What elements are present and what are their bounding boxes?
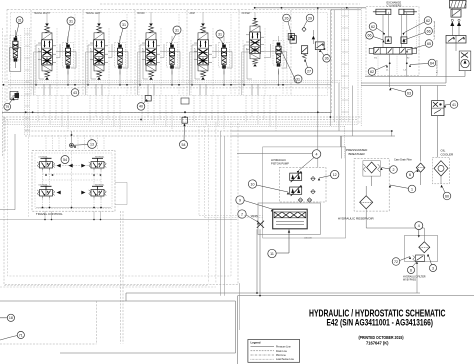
- servo inner box: [273, 209, 308, 229]
- svg-text:31: 31: [122, 23, 126, 27]
- ladder into reservoir: [341, 136, 343, 159]
- section drop wires: [37, 95, 39, 122]
- balloon 41: [450, 101, 458, 109]
- svg-text:79: 79: [6, 105, 10, 109]
- balloon 62: [368, 68, 376, 76]
- svg-text:HYDRAULIC: HYDRAULIC: [271, 158, 286, 162]
- svg-text:BOOM: BOOM: [138, 13, 145, 15]
- spool valve BOOM: [142, 24, 160, 80]
- balloon 1: [408, 185, 416, 193]
- svg-text:9: 9: [239, 198, 241, 202]
- balloon 66: [366, 32, 374, 40]
- balloon 31: [216, 30, 224, 38]
- balloon 43: [71, 89, 79, 97]
- piston pump 1: [290, 171, 303, 182]
- spool valve OFFSET: [246, 18, 264, 66]
- filter symbol: [419, 242, 430, 253]
- travel box center dashed line: [71, 151, 73, 212]
- pilot bus bundle dashed: [3, 116, 361, 118]
- svg-text:TRAVEL CONTROL: TRAVEL CONTROL: [36, 212, 63, 216]
- port relief valve ARM: [222, 45, 226, 48]
- work port wires BOOM: [147, 84, 149, 95]
- component 54b: [182, 117, 188, 123]
- feed wire TRAVEL LEFT: [87, 45, 89, 85]
- svg-text:41: 41: [452, 103, 456, 107]
- travel box interior wires: [42, 171, 44, 186]
- svg-text:COOLER: COOLER: [441, 153, 455, 157]
- svg-text:13: 13: [90, 142, 94, 146]
- svg-text:To Aux Solenoid: To Aux Solenoid: [436, 60, 439, 76]
- bottom dashed bus: [0, 343, 97, 345]
- spool valve TRAVEL RIGHT: [38, 24, 56, 80]
- leader to relief ARM: [219, 38, 223, 43]
- svg-text:54: 54: [63, 158, 67, 162]
- bottom frame line: [0, 300, 236, 302]
- pilot drop pair: [120, 211, 122, 344]
- valve section OFFSET: [242, 12, 288, 95]
- valve bank top dashed line: [100, 3, 360, 5]
- svg-text:31: 31: [175, 28, 179, 32]
- flow arrows travel: [57, 164, 61, 168]
- servo outer box: [258, 203, 320, 235]
- engine symbol: [449, 1, 466, 9]
- solenoid valve 70: [10, 92, 19, 100]
- spool top stub BOOM: [150, 12, 152, 24]
- long horizontal mid line: [0, 219, 237, 221]
- feed wire OFFSET: [243, 45, 245, 85]
- bottom return line 1: [126, 292, 420, 294]
- svg-text:BREATHER: BREATHER: [349, 152, 366, 156]
- balloon 3: [429, 264, 436, 271]
- left return wire: [14, 134, 16, 210]
- exchange valve: [369, 48, 417, 55]
- balloon 79: [4, 103, 11, 110]
- pump dashed box: [279, 167, 326, 202]
- svg-text:L2A L2B: L2A L2B: [304, 236, 312, 239]
- inlet section components: [290, 21, 325, 58]
- svg-text:66: 66: [427, 29, 431, 33]
- svg-text:43: 43: [73, 91, 77, 95]
- svg-text:62: 62: [371, 25, 375, 29]
- svg-text:62: 62: [426, 19, 430, 23]
- balloon 31: [173, 26, 181, 34]
- leader 6b: [413, 262, 418, 267]
- leader 3: [428, 254, 432, 265]
- exchange check left: [385, 37, 391, 44]
- svg-text:36: 36: [325, 57, 329, 61]
- balloon 66: [425, 27, 433, 35]
- svg-text:54: 54: [182, 143, 186, 147]
- pump compartment box: [263, 147, 346, 238]
- cooler core symbol: [434, 161, 448, 184]
- svg-text:PISTON PUMP: PISTON PUMP: [271, 162, 289, 166]
- reservoir dashed box: [354, 159, 389, 212]
- valve section BOOM: [138, 12, 184, 95]
- leader to relief TRAVEL LEFT: [119, 29, 123, 44]
- balloon 72: [392, 258, 400, 266]
- leader 72: [400, 257, 410, 261]
- svg-text:26: 26: [285, 16, 289, 20]
- feed wire BOOM: [139, 45, 141, 85]
- wire 71: [0, 336, 17, 341]
- bottom return line 2: [238, 295, 474, 297]
- work port wires ARM: [199, 84, 201, 95]
- check valve inlet: [312, 36, 315, 40]
- balloon 54: [61, 156, 69, 164]
- svg-text:3: 3: [432, 266, 434, 270]
- supply lines down from inlet: [317, 8, 319, 167]
- piston pump 2: [290, 185, 303, 196]
- svg-text:40: 40: [139, 105, 143, 109]
- legend drain line: [251, 350, 275, 352]
- svg-text:27: 27: [307, 69, 311, 73]
- balloon 26: [283, 14, 291, 22]
- leader left relief: [16, 24, 19, 37]
- right solenoid valve: [446, 36, 466, 44]
- section separator line 3: [134, 10, 136, 95]
- bypass valve box: [416, 255, 425, 262]
- shuttle valve 13: [70, 143, 74, 147]
- svg-text:4: 4: [316, 152, 318, 156]
- unloader valve box: [315, 42, 324, 50]
- balloon 29 leader + orifice: [304, 21, 307, 27]
- balloon 31: [67, 17, 75, 25]
- work port wires OFFSET: [251, 84, 253, 95]
- section separator line 6: [290, 10, 292, 95]
- travel box outlet drops: [44, 211, 46, 219]
- balloon 64: [428, 59, 436, 67]
- suction strainer: [360, 186, 373, 209]
- svg-text:Pilot Line: Pilot Line: [276, 354, 287, 357]
- balloon 54: [180, 141, 188, 149]
- reservoir to filter wire: [365, 209, 367, 228]
- port relief valve TRAVEL LEFT: [118, 45, 122, 48]
- leader 26: [288, 22, 291, 33]
- balloon 13: [88, 140, 97, 149]
- spool top stub TRAVEL RIGHT: [46, 12, 48, 24]
- valve section TRAVEL LEFT: [86, 12, 132, 95]
- work port wires TRAVEL LEFT: [95, 84, 97, 95]
- balloon 2: [390, 166, 398, 174]
- section wire loops: [194, 49, 200, 80]
- section internal dashed lines: [190, 40, 192, 95]
- engine coupling X: [257, 221, 264, 228]
- balloon 31: [16, 17, 23, 24]
- balloon 11: [268, 249, 276, 257]
- cylinder drop lines: [382, 15, 384, 48]
- legend load sense line: [251, 358, 275, 360]
- svg-text:31: 31: [218, 32, 222, 36]
- svg-text:29: 29: [308, 16, 312, 20]
- svg-text:18: 18: [9, 316, 13, 320]
- balloon 31: [120, 21, 128, 29]
- leader 4b: [418, 230, 420, 235]
- balloon 65: [425, 40, 433, 48]
- svg-text:64: 64: [430, 61, 434, 65]
- svg-text:HYDRAULIC RESERVOIR: HYDRAULIC RESERVOIR: [338, 217, 375, 221]
- coupler box: [451, 9, 461, 17]
- svg-text:31: 31: [69, 19, 73, 23]
- valve bank outer dashed boundary: [7, 10, 332, 113]
- svg-text:60: 60: [445, 194, 449, 198]
- pilot dashed rect inner: [8, 120, 232, 277]
- pedal valve LH forward: [37, 156, 55, 171]
- leader 9: [244, 201, 272, 210]
- leader 63: [391, 88, 406, 92]
- svg-text:W/ BYPASS: W/ BYPASS: [403, 279, 416, 282]
- section separator line 2: [82, 10, 84, 95]
- balloon 7: [238, 210, 246, 218]
- work port wires TRAVEL RIGHT: [43, 84, 45, 95]
- svg-text:66: 66: [368, 34, 372, 38]
- pilot dashed rect outer: [4, 117, 238, 285]
- balloon 71: [17, 331, 24, 338]
- filter wires: [423, 228, 425, 242]
- exchange cylinder left: [373, 9, 391, 14]
- leader 1: [390, 185, 408, 188]
- svg-text:7167647 (K): 7167647 (K): [366, 341, 389, 346]
- dashed mid horizontals bottom: [4, 284, 208, 286]
- leader 10: [257, 185, 288, 192]
- svg-text:To 12 Volt Solenoid: To 12 Volt Solenoid: [433, 20, 436, 40]
- junction cluster 54b: [181, 98, 189, 104]
- travel control box: [32, 151, 115, 212]
- section separator line 1: [30, 10, 32, 95]
- leader 27: [305, 59, 308, 67]
- exchange cylinder right: [399, 9, 417, 14]
- left edge pilot verticals: [2, 112, 4, 157]
- svg-text:1: 1: [411, 187, 413, 191]
- breather symbol: [363, 161, 381, 176]
- section separator line 4: [186, 10, 188, 95]
- balloon 60: [443, 192, 451, 200]
- svg-text:72: 72: [394, 260, 398, 264]
- ladder rungs right: [342, 16, 349, 112]
- svg-text:Pressure Line: Pressure Line: [276, 346, 291, 349]
- pedal valve RH reverse: [89, 183, 107, 198]
- balloon 10: [248, 180, 256, 188]
- spool top stub ARM: [202, 12, 204, 24]
- left inlet check: [290, 36, 296, 44]
- solenoid valve 41: [432, 101, 444, 116]
- svg-text:6: 6: [410, 268, 412, 272]
- svg-text:65: 65: [427, 42, 431, 46]
- svg-text:62: 62: [370, 70, 374, 74]
- leader 12: [319, 176, 331, 179]
- svg-text:Load Sense Line: Load Sense Line: [276, 358, 295, 361]
- svg-text:CYLINDERS: CYLINDERS: [387, 4, 402, 8]
- feed wire ARM: [191, 45, 193, 85]
- travel pilot dashed link: [54, 165, 90, 167]
- section wire loops: [90, 49, 96, 80]
- spool top stub OFFSET: [254, 12, 256, 24]
- legend box: [248, 340, 300, 363]
- exchange inner dotted verticals: [419, 15, 421, 48]
- leader 11: [276, 252, 289, 254]
- port relief valve BOOM: [170, 45, 174, 48]
- port relief valve TRAVEL RIGHT: [66, 45, 70, 48]
- leader 7: [246, 215, 258, 222]
- svg-text:(PRINTED OCTOBER 2015): (PRINTED OCTOBER 2015): [359, 335, 404, 340]
- travel box right bracket: [115, 181, 127, 183]
- vertical drops mid: [220, 131, 222, 296]
- tank return bus solid: [2, 111, 332, 113]
- servo spool: [274, 212, 306, 218]
- pump outlet lines down: [256, 229, 258, 293]
- svg-text:TRAVEL RIGHT: TRAVEL RIGHT: [34, 12, 51, 15]
- section internal dashed lines: [138, 40, 140, 95]
- svg-text:Case Drain Filter: Case Drain Filter: [394, 159, 412, 162]
- svg-text:31: 31: [18, 18, 22, 22]
- valve bank inner dashed frame: [11, 13, 328, 96]
- leader 2: [382, 168, 390, 170]
- balloon 4: [415, 222, 423, 230]
- balloon 63: [405, 89, 413, 97]
- balloon 4: [312, 150, 321, 159]
- balloon 9: [236, 196, 244, 204]
- svg-text:2: 2: [393, 168, 395, 172]
- right pump assembly: [459, 51, 471, 71]
- return lines to reservoir: [25, 130, 230, 132]
- section separator line 5: [238, 10, 240, 95]
- balloon 6: [407, 266, 414, 273]
- svg-text:TRAVEL LEFT: TRAVEL LEFT: [86, 12, 102, 15]
- valve section TRAVEL RIGHT: [34, 12, 80, 95]
- pedal valve LH reverse: [37, 183, 55, 198]
- exchange valve bottom lines: [389, 54, 391, 87]
- spool valve TRAVEL LEFT: [90, 24, 108, 80]
- balloon 18: [7, 314, 14, 321]
- pilot dashed verticals mid: [208, 125, 210, 284]
- leader to relief BOOM: [171, 34, 176, 43]
- leader to relief TRAVEL RIGHT: [67, 25, 70, 43]
- svg-text:12: 12: [333, 173, 337, 177]
- svg-text:10: 10: [251, 182, 255, 186]
- leader 79: [9, 98, 14, 105]
- valve section ARM: [190, 12, 236, 95]
- leader 13: [74, 144, 88, 147]
- balloon 40: [137, 103, 145, 111]
- travel box drop wires: [45, 135, 47, 151]
- svg-text:ARM: ARM: [190, 12, 195, 15]
- svg-text:Legend: Legend: [251, 341, 261, 345]
- leader to relief OFFSET: [278, 43, 298, 83]
- servo lower marks: [276, 221, 304, 223]
- load sense ladder bus left: [24, 28, 26, 135]
- right column wires: [455, 43, 457, 51]
- section internal dashed lines: [86, 40, 88, 95]
- pedal valve RH forward: [89, 156, 107, 171]
- balloon 12: [331, 170, 339, 178]
- spool valve ARM: [194, 24, 212, 80]
- section internal dashed lines: [242, 40, 244, 95]
- check valves right pair: [450, 22, 454, 27]
- leader 60: [442, 185, 446, 193]
- hydraulic filter box: [405, 235, 438, 261]
- section wire loops: [38, 49, 44, 80]
- balloon 36: [323, 55, 331, 63]
- section wire loops: [246, 49, 252, 80]
- power beyond bus: [8, 84, 331, 86]
- left edge dashed verticals: [2, 28, 4, 112]
- wire 18: [0, 317, 7, 319]
- section internal dashed lines: [34, 40, 36, 95]
- balloon 62: [369, 23, 377, 31]
- leader 4: [298, 158, 314, 172]
- main relief valve left end: [10, 30, 21, 71]
- section wire loops: [142, 49, 148, 80]
- legend pressure line: [251, 346, 275, 348]
- spool top stub TRAVEL LEFT: [98, 12, 100, 24]
- exchange check right: [401, 37, 407, 44]
- svg-text:71: 71: [19, 333, 23, 337]
- inlet relief valve: [301, 46, 307, 54]
- ladder rungs left: [25, 34, 30, 130]
- svg-text:OFFSET: OFFSET: [242, 13, 252, 15]
- svg-text:63: 63: [407, 91, 411, 95]
- balloon 31: [294, 75, 302, 83]
- legend pilot line: [251, 354, 275, 356]
- load sense ladder bus right: [341, 8, 343, 122]
- svg-text:4: 4: [418, 224, 420, 228]
- svg-text:6: 6: [409, 173, 411, 177]
- svg-text:E42 (S/N AG3411001 - AG3413166: E42 (S/N AG3411001 - AG3413166): [327, 317, 434, 327]
- leader 36: [320, 50, 324, 56]
- balloon 6: [406, 171, 413, 178]
- top feed wires: [255, 7, 366, 9]
- balloon 29: [306, 14, 314, 22]
- leader 6: [414, 170, 418, 174]
- svg-text:Drain Line: Drain Line: [276, 350, 288, 353]
- balloon 62: [424, 17, 432, 25]
- svg-text:11: 11: [270, 252, 274, 256]
- pump drain orifices: [311, 177, 315, 181]
- feed wire TRAVEL RIGHT: [35, 45, 37, 85]
- pilot pair to pump: [198, 126, 200, 216]
- balloon 27: [305, 67, 313, 75]
- port relief valve OFFSET: [277, 43, 281, 46]
- component 40: [145, 96, 151, 102]
- leader 41: [445, 104, 450, 107]
- check valve 26: [288, 34, 294, 40]
- exchange cylinders dashed box: [366, 7, 419, 76]
- bank load sense dotted bus: [8, 80, 341, 82]
